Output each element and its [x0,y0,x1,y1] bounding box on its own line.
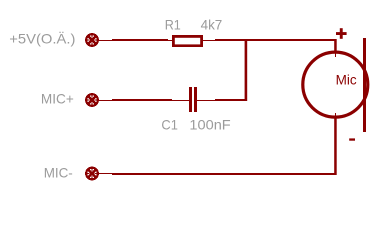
svg-text:100nF: 100nF [189,117,230,133]
svg-text:R1: R1 [165,16,181,32]
svg-text:MIC+: MIC+ [41,91,74,107]
svg-text:4k7: 4k7 [201,16,223,32]
svg-text:+5V(O.Ä.): +5V(O.Ä.) [9,31,75,47]
svg-text:MIC-: MIC- [44,164,73,180]
svg-text:C1: C1 [161,116,178,132]
svg-text:Mic: Mic [336,73,357,88]
